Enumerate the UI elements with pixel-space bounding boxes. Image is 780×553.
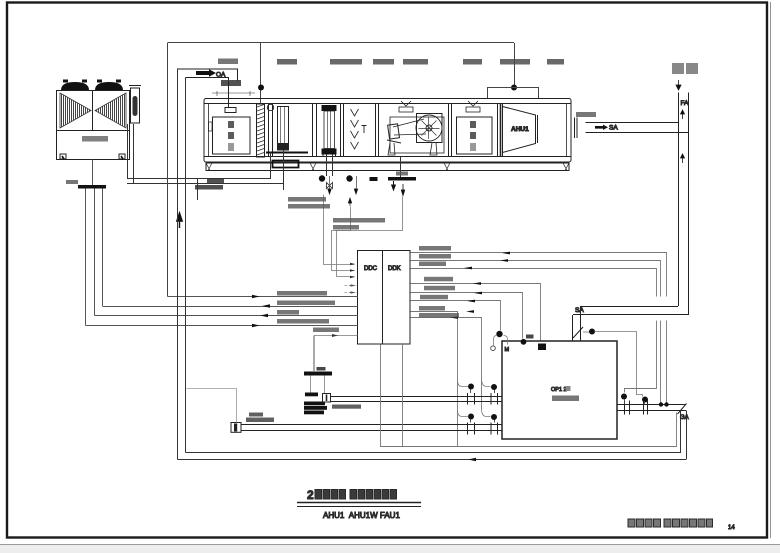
room text 2级洁净手术室 <box>552 396 579 402</box>
title underline double <box>297 502 421 504</box>
DDC controller <box>358 251 411 345</box>
valve V1 arrow <box>328 188 331 194</box>
dense text block <box>304 402 325 406</box>
svg-text:OA: OA <box>216 72 226 79</box>
wires steam valves to DDC <box>288 195 403 294</box>
motor <box>388 124 400 139</box>
pipe flange ticks <box>625 401 648 415</box>
wire from fan power <box>337 197 403 277</box>
fan wheel <box>416 115 442 141</box>
pipe riser 2 <box>94 189 96 316</box>
wire horizontal y43 <box>168 42 515 44</box>
coil bottom header <box>322 149 337 155</box>
label 手动调节(运行状态故障报警) <box>277 301 335 306</box>
chiller louver right triangle <box>95 93 126 128</box>
valve V1 body <box>327 183 333 189</box>
access door 2 <box>457 117 493 154</box>
water valve B2 <box>482 409 498 435</box>
pipe drop from chiller <box>92 160 94 186</box>
trunk up arrow <box>177 213 182 228</box>
steam valves below AHU <box>319 172 416 207</box>
SA drop left <box>572 315 574 341</box>
border frame inner right line <box>770 2 772 538</box>
AHU outlet stub + SA <box>575 112 690 138</box>
outlet stub rect <box>575 118 578 139</box>
input arrow 4 <box>252 324 260 327</box>
PE-MC label <box>305 393 318 397</box>
riser from DDC <box>313 336 315 372</box>
svg-text:SA: SA <box>609 125 618 132</box>
label 袋式中效段 <box>500 59 530 65</box>
SA damper actuator wire <box>583 331 590 333</box>
fresh air opening rect <box>225 108 236 113</box>
right vertical to GA pipe <box>686 411 688 460</box>
wire drop to filter sensor <box>260 43 262 104</box>
water valve A2 <box>482 379 498 405</box>
bar label <box>317 367 326 371</box>
AHU casing <box>204 99 571 171</box>
node duct sensor dot <box>511 85 517 91</box>
transformer box symbol <box>323 394 331 403</box>
SA duct bottom line <box>586 132 690 134</box>
AHU humidifier section <box>341 104 379 158</box>
water valve A1 <box>458 381 475 405</box>
coil pipe down 1 <box>270 153 272 179</box>
bar drops <box>310 376 312 394</box>
wire 6 <box>411 301 501 331</box>
wire from valve V1 <box>324 195 355 265</box>
fan housing <box>417 114 443 143</box>
AHU section divider 2 <box>313 104 317 158</box>
coil feet <box>323 155 336 158</box>
SA drop right <box>580 306 582 341</box>
valve V2 up arrow <box>348 198 351 206</box>
chiller label 风冷热泵 <box>82 136 108 142</box>
valve V1 stem <box>329 176 331 188</box>
chiller body <box>57 91 130 160</box>
svg-text:AHU1: AHU1 <box>511 126 529 133</box>
dimension line <box>212 91 255 96</box>
label 加湿蒸汽阀门执行器 <box>288 204 330 209</box>
label 过滤器阻塞压差监测器 <box>419 313 459 318</box>
OA arrow <box>196 69 216 77</box>
valve V2 stem <box>356 176 358 188</box>
power supply transformer box <box>304 393 361 415</box>
left vertical <box>185 78 187 453</box>
pipe label 冷冻供回水管 <box>195 185 223 190</box>
DDC box <box>358 251 411 345</box>
node filter sensor dot <box>258 85 264 91</box>
AHU blank panel + sensor circle <box>267 104 273 157</box>
svg-text:DDC: DDC <box>364 266 378 272</box>
wire 7 <box>411 312 458 447</box>
label 电动风阀 <box>218 59 238 65</box>
left vertical <box>177 69 179 460</box>
sensor bridge over bag section <box>488 88 539 100</box>
svg-text:OP1 2: OP1 2 <box>551 387 567 393</box>
door handle <box>209 122 213 131</box>
OA duct bottom line <box>186 78 229 83</box>
AHU section labels row <box>277 59 564 65</box>
pipe line 1a <box>331 396 503 398</box>
AHU steam heating coil <box>322 105 337 176</box>
bottom-left blind flange <box>187 389 275 433</box>
AHU supply fan assembly <box>387 101 444 177</box>
dashed input stubs <box>345 286 358 293</box>
fan vibration lug <box>401 101 411 106</box>
casing outer <box>204 99 571 163</box>
label above <box>249 413 263 417</box>
text right of box <box>332 405 361 409</box>
right vertical to GA pipe <box>680 411 682 453</box>
damper drop lines <box>228 82 230 107</box>
big wrap rectangle inner <box>186 78 682 453</box>
coil pipe down 2 <box>283 150 285 190</box>
drain pan <box>266 152 308 154</box>
label 强弱电监控线 <box>313 328 339 333</box>
plinth foot 1 <box>206 163 212 171</box>
wire arrowheads into DDC <box>350 263 355 279</box>
riser 1 <box>381 345 677 447</box>
valve dot 1 <box>621 394 627 400</box>
FA duct line left <box>678 93 680 307</box>
humidifier tube <box>362 126 367 134</box>
casing inner right wall <box>566 104 568 158</box>
flange bar <box>304 372 332 376</box>
wire 3 <box>411 269 657 393</box>
label 均流段 <box>463 59 482 65</box>
svg-text:GA: GA <box>680 415 689 421</box>
chiller louver left triangle <box>60 93 91 128</box>
device dot with stem <box>496 331 502 337</box>
FA fresh air duct right <box>672 63 698 315</box>
svg-text:FA: FA <box>681 100 690 107</box>
GA damper diagonal <box>678 404 687 415</box>
fan frame <box>390 117 444 153</box>
access door 1 <box>213 117 251 154</box>
SA run top line <box>581 306 678 308</box>
label 室内压差传感器 <box>420 295 448 300</box>
wire from flange bar to DDC <box>314 335 358 337</box>
AHU section 1: mixing / access door <box>209 91 256 154</box>
label 加湿器阀门执行器 <box>288 197 326 202</box>
svg-text:2: 2 <box>307 488 314 502</box>
bottom line <box>178 459 687 461</box>
pipe flange bar <box>78 185 106 189</box>
label 加湿段 <box>373 59 394 65</box>
AHU filter (plate filter, hatched) <box>257 104 265 157</box>
SA damper actuator dot <box>589 329 595 335</box>
electrical flange bar mid <box>304 336 332 394</box>
svg-text:SA: SA <box>575 307 584 314</box>
big wrap rectangle outer <box>178 69 687 461</box>
bottom band top line <box>0 544 780 546</box>
room top sensor dot <box>521 339 527 345</box>
label WX 中继设备 <box>419 262 446 267</box>
casing inner bottom <box>204 156 571 158</box>
spray chevrons <box>351 109 359 149</box>
belt lines <box>393 119 424 127</box>
vibration lug <box>468 101 478 106</box>
chiller side control box <box>131 88 140 123</box>
pipe line 2b <box>241 430 502 432</box>
room top black box <box>538 344 546 351</box>
coil bottom header <box>278 143 289 150</box>
title center <box>297 488 421 520</box>
label 运行状态 故障报警 手动复位 <box>277 319 329 324</box>
wire drop to duct sensor <box>514 43 516 87</box>
door text 检修 vertical <box>470 121 476 128</box>
label 变速 4-20mA 输出 <box>424 277 453 282</box>
room top devices <box>491 331 546 353</box>
svg-text:M: M <box>505 347 510 353</box>
wire 1 room temp sensor <box>411 253 667 403</box>
bottom arrow <box>468 458 476 461</box>
steam pipes down <box>326 155 328 177</box>
新风 text <box>672 63 684 74</box>
FA duct line right <box>688 93 690 316</box>
label 24C 上限 30 联锁关风机 <box>424 286 455 291</box>
water valve B1 <box>458 411 475 435</box>
fan base feet <box>388 143 395 155</box>
SA duct top line <box>586 122 679 124</box>
coil body <box>324 111 335 149</box>
chiller feet <box>60 154 66 159</box>
label 蒸汽加热段 <box>330 59 362 65</box>
junction dot 2 <box>664 402 668 406</box>
svg-text:14: 14 <box>728 525 735 531</box>
chiller water pipes down <box>66 124 284 326</box>
pipe top line <box>617 404 686 406</box>
down arrow <box>676 80 681 90</box>
label 运行状态 故障报警 手动复位 <box>333 218 385 223</box>
fan power label <box>396 172 408 176</box>
water pipe run 1 to room <box>331 397 503 402</box>
wire left trunk down <box>167 43 169 297</box>
FA up arrow <box>681 110 685 119</box>
pipe size label <box>66 180 78 184</box>
coil top header <box>322 105 337 111</box>
input line 1 <box>168 296 358 298</box>
wire 8 <box>411 318 482 409</box>
SA damper wire to GA valve <box>595 332 643 397</box>
title bottom right <box>628 519 735 531</box>
junction dot 1 <box>659 402 663 406</box>
bottom grey band <box>0 544 780 553</box>
plinth foot 2 <box>563 163 569 171</box>
label 过滤器阻塞压差监测器 <box>277 291 327 296</box>
casing inner left wall <box>208 104 210 158</box>
pipe line 1b <box>331 401 503 403</box>
OA fresh air duct inlet <box>178 59 242 108</box>
divider after steam coil <box>340 104 342 158</box>
device small circle <box>491 346 496 351</box>
AHU bag filter divider <box>498 104 503 158</box>
riser 2 <box>402 344 404 447</box>
fan power arrows <box>392 181 396 190</box>
wire 5 <box>411 293 523 339</box>
fan power drop <box>400 157 402 177</box>
SA run bottom line <box>573 314 689 316</box>
DDC left input lines <box>86 291 358 337</box>
input line 2 from chiller <box>103 306 358 308</box>
pipe line 2a <box>241 424 502 426</box>
chiller outlet stubs <box>127 124 129 179</box>
label 室内湿度传感器 <box>419 254 451 259</box>
pipe label 凝结水 <box>207 179 224 184</box>
sensor circle <box>267 104 273 110</box>
AHU outlet cone AHU1 <box>503 107 538 153</box>
SA arrow <box>595 125 608 130</box>
label 室内温度传感器 <box>419 246 451 251</box>
AHU divider after fan <box>449 104 452 158</box>
input arrow 3 <box>260 314 268 317</box>
label 强电控制线 <box>333 225 359 230</box>
OA duct top line <box>178 69 238 81</box>
label 新风口 <box>221 80 241 86</box>
pipe riser 3 <box>102 189 104 307</box>
chiller fan 1 <box>61 82 89 90</box>
AHU cooling coil <box>266 107 308 191</box>
valve V1 actuator dot <box>319 175 325 181</box>
svg-text:DDK: DDK <box>388 266 401 272</box>
SA damper diagonal <box>573 327 583 338</box>
input arrow 2 <box>262 304 270 307</box>
plinth foot 4 <box>444 163 450 171</box>
wire from valve V2 <box>332 207 355 271</box>
bottom line <box>186 452 682 454</box>
chiller fan 2 <box>95 82 123 90</box>
divider before fan <box>375 104 377 158</box>
chiller CH1 (air-cooled heat pump) <box>57 80 142 160</box>
DDC right output wires <box>411 246 667 447</box>
DDC bottom risers <box>381 344 677 447</box>
label 表冷段 <box>277 59 297 65</box>
label 送风机段 <box>403 59 428 65</box>
operating room box <box>502 341 617 439</box>
casing plinth <box>206 163 569 171</box>
condensate drop <box>197 179 199 201</box>
valve dot 2 <box>642 397 648 403</box>
pipe bottom line <box>617 410 686 412</box>
input arrow 1 <box>252 295 260 298</box>
duct up arrow 2 <box>681 154 685 163</box>
fan power flange bar <box>388 177 416 181</box>
label 故障报警 <box>277 310 299 315</box>
SA horizontal run to room <box>573 306 689 341</box>
sensor trunk wire on top <box>168 43 539 297</box>
casing inner top <box>204 103 571 105</box>
humidifier black label <box>370 177 378 181</box>
wire drop to flange <box>187 389 237 423</box>
label 送风段 <box>547 59 564 65</box>
door text 检修门 vertical <box>228 121 234 128</box>
plinth foot 3 <box>310 163 316 171</box>
AHU flow equalize section access door <box>457 101 493 154</box>
valve V2 arrow <box>354 188 357 194</box>
chilled water supply line <box>127 178 271 180</box>
valve V2 actuator dot <box>346 175 352 181</box>
GA exhaust pipe <box>617 394 689 422</box>
water pipe run 2 to room <box>241 425 502 431</box>
svg-text:AHU1 AHU1W FAU1: AHU1 AHU1W FAU1 <box>323 511 400 520</box>
pipe riser 1 <box>85 189 87 326</box>
input line 4 <box>86 325 358 327</box>
label 送风口 <box>576 112 596 117</box>
label tiny <box>526 335 534 339</box>
label 排风电动风阀 <box>419 306 445 311</box>
chilled water return line <box>127 183 284 185</box>
DDC divider <box>382 251 384 345</box>
input line 3 from chiller <box>95 315 358 317</box>
wire 2 room humidity sensor <box>411 261 661 403</box>
wire 4 <box>411 284 541 341</box>
